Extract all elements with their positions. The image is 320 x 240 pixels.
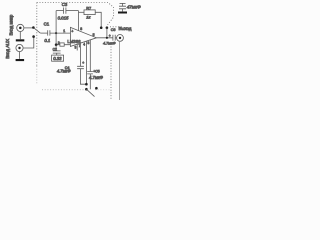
svg-text:8: 8 (80, 27, 82, 31)
wire C2 to value box (56, 53, 58, 55)
svg-text:4.7мкФ: 4.7мкФ (89, 75, 104, 80)
wire jack XS2 to switch contact (23, 37, 34, 48)
wire jack XS1 to switch contact (24, 27, 33, 29)
ground bar top right (118, 12, 127, 14)
jack XS1 top input (17, 24, 24, 31)
wire C4 bottom to ground node (80, 69, 86, 85)
svg-text:+: + (82, 61, 84, 65)
value box 0.33 (52, 55, 64, 61)
module dashed border top+notch+right (37, 3, 122, 100)
module dashed border bottom (faint) (42, 89, 87, 91)
ground node dot 1 (85, 83, 88, 86)
supply T bar (120, 2, 126, 4)
svg-text:2: 2 (58, 41, 60, 45)
switch SA1 contact dot top (32, 26, 35, 29)
capacitor C6 (113, 35, 115, 41)
op-amp U1 LM386 triangle (70, 27, 96, 46)
svg-text:Вход AUX: Вход AUX (5, 39, 10, 59)
capacitor C4 polarized (77, 66, 84, 68)
svg-text:+: + (109, 34, 111, 38)
wire C3 right lead to pin 8 node (66, 10, 79, 12)
wire C5 bottom to border (89, 74, 91, 89)
svg-text:4.7мкФ: 4.7мкФ (57, 69, 71, 74)
svg-text:C6: C6 (111, 28, 116, 32)
node C6 junction dot (106, 37, 108, 39)
node B dot (106, 26, 109, 29)
node input/C3 junction (55, 32, 57, 34)
wire C1 to op-amp input (50, 32, 71, 34)
svg-text:Выход: Выход (119, 26, 132, 31)
svg-text:8: 8 (88, 41, 90, 45)
output wire pin5 to C6 (97, 37, 113, 39)
capacitor C3 (64, 8, 66, 14)
wire node B down to output (106, 28, 108, 38)
wire switch common to C1 (40, 32, 47, 34)
pin 4 wire down (85, 41, 87, 84)
module dashed border left (36, 3, 38, 67)
pin 2 node dot (55, 43, 58, 46)
pin 7 wire down to C4 (79, 43, 81, 66)
jack XS2 bottom input (AUX) (16, 44, 23, 51)
svg-text:5: 5 (93, 33, 95, 37)
inverting input wire pin 2 (56, 33, 70, 45)
svg-text:47мкФ: 47мкФ (127, 5, 141, 10)
switch SA1 contact dot bottom (32, 35, 35, 38)
pin 6 wire down to C5 (89, 40, 91, 72)
ground bar XS2 (16, 59, 25, 61)
svg-text:0.015: 0.015 (58, 16, 69, 21)
wire pin2 node to C2 (55, 45, 57, 51)
jack XS3 output (117, 35, 124, 42)
ground exit diagonal wire (86, 89, 94, 96)
svg-text:R7: R7 (86, 5, 91, 10)
ground node dot 3 (95, 87, 98, 90)
ground stub XS2 (19, 51, 21, 59)
svg-text:4: 4 (83, 43, 85, 47)
wire R7 left lead (79, 11, 85, 13)
svg-text:3: 3 (75, 46, 77, 50)
wire supply to C7 (121, 3, 123, 6)
wire R7 right lead, down to node A (95, 12, 101, 27)
svg-text:1: 1 (63, 29, 65, 33)
svg-text:0.1: 0.1 (44, 38, 50, 43)
ground stub XS1 (19, 31, 21, 39)
wire C3 left lead (56, 10, 63, 12)
svg-text:4.7мкФ: 4.7мкФ (103, 42, 116, 46)
small box on pin 2 wire (60, 43, 64, 46)
resistor R7 (84, 10, 95, 15)
ground node dot 2 (85, 88, 88, 91)
wire C3 branch vertical (55, 11, 57, 33)
capacitor C5 polarized (87, 72, 93, 74)
switch SA1 lever (34, 28, 40, 33)
svg-text:Вход микр: Вход микр (8, 14, 13, 35)
svg-text:7: 7 (79, 44, 81, 48)
capacitor C1 (48, 30, 50, 35)
ground bar XS1 (16, 39, 24, 41)
svg-text:+C5: +C5 (93, 69, 99, 73)
wire C6 to jack (115, 37, 116, 39)
wire C7 to ground (121, 9, 123, 12)
jack XS3 ground wire down (119, 41, 121, 100)
svg-text:1к: 1к (86, 15, 91, 20)
svg-text:0.33: 0.33 (53, 56, 62, 61)
pin 8 wire from op-amp top (78, 11, 80, 31)
node A dot (100, 26, 103, 29)
pin 3 stub wire (76, 44, 78, 50)
svg-text:C3: C3 (62, 2, 68, 7)
capacitor C2 (53, 51, 61, 53)
capacitor C7 47мкФ (119, 6, 126, 9)
svg-text:+: + (71, 29, 73, 33)
svg-text:C1: C1 (44, 22, 50, 27)
